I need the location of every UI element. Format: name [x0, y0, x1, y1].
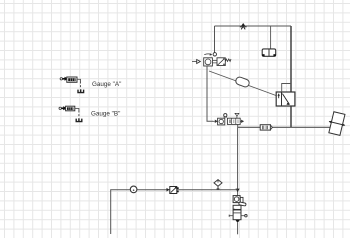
compensator valve box — [217, 58, 225, 66]
wire down from junction — [237, 127, 239, 195]
spring W — [225, 59, 231, 61]
wire top supply line — [215, 25, 292, 27]
pilot loop — [282, 84, 291, 93]
wire long return line — [111, 190, 238, 234]
pump assembly — [192, 53, 231, 66]
knob — [239, 202, 247, 206]
gauge A assembly — [60, 77, 121, 93]
right stub with ball — [241, 215, 245, 217]
gauge B arrow — [62, 107, 67, 109]
gauge B assembly — [59, 106, 120, 121]
inline circle component — [130, 186, 137, 193]
pump box — [204, 58, 213, 66]
pump inlet arrow — [192, 61, 197, 63]
bottom triangle — [235, 220, 240, 223]
tank symbol — [235, 113, 239, 116]
top box with circle — [233, 196, 240, 203]
gauge B wire — [75, 108, 79, 110]
gauge A readout box — [67, 77, 77, 82]
gauge A connector symbol — [78, 90, 84, 93]
gauge A port dot — [60, 78, 62, 80]
wire drop to accumulator — [270, 26, 272, 49]
gauge A dashed wire — [80, 82, 82, 89]
outlet arrow — [240, 120, 241, 122]
gauge A wire — [77, 79, 81, 81]
inlet arrow — [213, 120, 215, 122]
small circle top — [224, 114, 227, 117]
side link — [240, 197, 243, 202]
pilot diagonal wire — [209, 71, 276, 96]
wire manifold to junction — [237, 124, 239, 127]
accumulator block — [262, 49, 276, 57]
svg-text:Gauge "B": Gauge "B" — [91, 111, 120, 118]
inline valve with diagonal — [167, 187, 179, 194]
diagonal arrow — [282, 94, 289, 105]
gauge box — [218, 118, 225, 125]
manifold assembly — [213, 113, 244, 124]
connector between boxes — [212, 61, 217, 63]
gauge port loop on riser — [213, 53, 216, 56]
inline filter — [260, 125, 272, 130]
check valve on top line — [240, 23, 247, 29]
filter diamond — [214, 180, 222, 190]
inline damper ellipse — [235, 76, 250, 88]
wire left riser to pump — [214, 26, 216, 53]
gauge B port dot — [59, 107, 61, 109]
gauge B dashed wire — [78, 111, 80, 118]
rotation arrow — [204, 53, 211, 56]
gauge B readout box — [66, 106, 75, 111]
arrowhead on down wire — [236, 189, 240, 192]
wire pump outlet down — [207, 66, 213, 121]
wire right riser — [290, 26, 292, 127]
gauge A arrow — [63, 78, 68, 80]
pilot valve — [276, 84, 295, 107]
gauge B connector symbol — [76, 119, 82, 122]
wire to tank — [237, 223, 239, 234]
valve body — [233, 205, 241, 219]
svg-text:Gauge "A": Gauge "A" — [92, 81, 121, 88]
left stub — [229, 215, 233, 217]
valve block — [227, 118, 240, 124]
tilted cylinder — [326, 111, 348, 136]
relief stack — [229, 196, 247, 235]
wire lower horizontal — [238, 126, 331, 128]
up arrow in left cell — [278, 95, 280, 98]
